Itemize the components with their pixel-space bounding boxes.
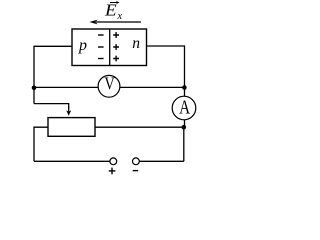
plus sign (109, 168, 116, 175)
terminal plus (110, 158, 117, 165)
node junction left rail (32, 86, 37, 91)
ammeter A (172, 96, 196, 120)
rheostat R (48, 118, 95, 137)
wire from n-side of junction box down right rail to ammeter (147, 46, 185, 127)
svg-text:n: n (132, 35, 140, 52)
minus sign (133, 170, 138, 172)
svg-text:V: V (104, 75, 115, 94)
node junction bottom right (182, 125, 187, 130)
depletion boundary divider (109, 29, 111, 66)
wire to minus terminal (139, 160, 183, 162)
minus charge row 2 (98, 46, 104, 48)
voltmeter V (98, 75, 120, 97)
minus charge row 3 (98, 58, 104, 60)
svg-text:A: A (179, 96, 190, 118)
node junction right rail (182, 85, 187, 90)
wire from plus terminal to left (34, 160, 110, 162)
wire from p-side of junction box to left rail (34, 46, 72, 103)
terminal minus (133, 158, 140, 165)
plus charge row 1 (113, 32, 119, 38)
plus charge row 2 (113, 44, 119, 50)
wire wiper branch to rheostat (34, 104, 69, 112)
E field arrow (pointing left) (96, 21, 141, 23)
svg-text:p: p (78, 37, 87, 54)
wire up from bottom-left corner to rheostat left side (34, 127, 48, 161)
plus charge row 3 (113, 56, 119, 62)
svg-text:x: x (117, 11, 123, 22)
minus charge row 1 (98, 34, 104, 36)
wire down from bottom-right junction (183, 127, 185, 161)
wiper arrowhead (66, 110, 71, 116)
wire rheostat right side to bottom-right junction (95, 126, 184, 128)
svg-text:E: E (104, 1, 117, 20)
wire main horizontal rail through voltmeter (34, 86, 185, 88)
p-n junction box (72, 29, 147, 66)
